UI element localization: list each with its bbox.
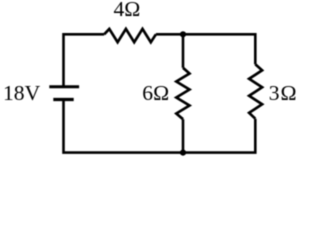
svg-text:6Ω: 6Ω	[142, 81, 169, 105]
wire: right rail below R3 + bottom rail + left rail below battery	[64, 100, 256, 153]
battery V1 positive plate (long)	[49, 85, 79, 88]
resistor R2 6Ω (middle vertical zigzag)	[176, 68, 189, 119]
resistor R3 3Ω (right vertical zigzag)	[249, 64, 262, 118]
svg-text:3Ω: 3Ω	[269, 81, 298, 105]
node: bottom junction dot	[180, 150, 186, 156]
svg-text:4Ω: 4Ω	[114, 0, 141, 21]
wire: left rail top segment + top rail left of R1	[64, 34, 105, 87]
battery V1 negative plate (short)	[53, 98, 73, 101]
resistor R1 4Ω (top horizontal zigzag)	[104, 29, 156, 42]
svg-text:18V: 18V	[3, 81, 41, 105]
wire: middle branch from R2 to bottom node	[182, 119, 185, 152]
wire: middle branch from top node to R2	[182, 34, 185, 68]
node: top junction dot	[180, 31, 186, 37]
wire: top rail right of R1 to top-right corner down to R3	[156, 34, 255, 64]
